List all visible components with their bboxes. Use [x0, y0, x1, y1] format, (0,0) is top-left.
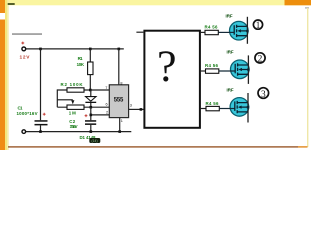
- node junction C1/top rail: [39, 48, 42, 51]
- svg-text:2: 2: [106, 111, 108, 115]
- wire R2 horizontal / pin7 line: [57, 89, 109, 91]
- terminal circle 2: [255, 53, 265, 63]
- wire R4 to gate (2): [219, 70, 235, 72]
- svg-text:1*16V: 1*16V: [70, 124, 78, 129]
- node mosfet tap dot (2): [247, 68, 249, 70]
- plus mark 12V: [21, 42, 24, 45]
- svg-text:R4 56: R4 56: [206, 101, 220, 106]
- wire pot loop left vertical: [56, 89, 58, 107]
- diode D1 anode lead: [90, 90, 92, 96]
- mosfet arrow (3): [238, 106, 242, 109]
- wire pot wiper line: [57, 99, 73, 101]
- node pin3 end dot: [140, 108, 143, 111]
- grey line top left: [12, 33, 42, 34]
- wire C2 top lead: [90, 107, 92, 120]
- node junction R1/R2/D1: [89, 89, 92, 92]
- terminal 0V: [22, 130, 26, 134]
- svg-text:10K: 10K: [77, 62, 85, 67]
- page background: [0, 0, 311, 150]
- wire 555 pin1 drop: [119, 118, 121, 132]
- wire pin2 line: [91, 114, 110, 116]
- left pale yellow strip: [5, 0, 7, 150]
- dark tag over D1 label: [89, 138, 100, 143]
- wire pin6 line: [57, 106, 109, 108]
- svg-text:IRF: IRF: [227, 88, 234, 93]
- node junction D1/pot/pin6: [90, 106, 93, 109]
- node junction R1/top rail: [89, 48, 92, 51]
- resistor R4 (3): [206, 106, 219, 110]
- svg-text:R4 56: R4 56: [205, 24, 219, 29]
- wire 555 pin8 drop: [118, 49, 120, 85]
- node junction C2/ground: [90, 130, 93, 133]
- capacitor C2: [85, 120, 96, 122]
- transistor Q2 mosfet circle: [231, 60, 250, 79]
- top right orange block: [285, 0, 312, 5]
- mosfet arrow (1): [237, 29, 241, 32]
- plus mark C2: [85, 114, 88, 117]
- terminal 12V: [22, 47, 26, 51]
- bottom brown border line: [8, 146, 298, 147]
- svg-text:2: 2: [258, 55, 263, 65]
- wire top +12V rail: [26, 48, 124, 50]
- grey dash top right: [305, 7, 309, 8]
- wire R1 bottom lead: [89, 75, 91, 90]
- wire C1 top lead: [40, 49, 42, 120]
- resistor R1: [88, 62, 93, 75]
- node mosfet tap dot (1): [246, 30, 248, 32]
- svg-text:R4 56: R4 56: [205, 63, 219, 68]
- svg-text:7: 7: [105, 86, 107, 90]
- svg-text:12V: 12V: [20, 55, 31, 61]
- mosfet internals (2): [235, 63, 248, 75]
- mosfet arrow (2): [238, 68, 242, 71]
- wire drain-source vertical (2): [247, 55, 249, 84]
- wire ground rail: [26, 131, 132, 133]
- right pale yellow border line: [307, 8, 308, 147]
- plus mark C1: [43, 113, 46, 116]
- svg-text:8: 8: [120, 81, 122, 85]
- svg-text:3: 3: [261, 90, 266, 100]
- resistor R4 (2): [206, 69, 219, 73]
- node junction C1/ground: [39, 130, 42, 133]
- diode D1 cathode bar: [85, 102, 96, 103]
- wire 555 pin3 output: [129, 108, 144, 110]
- top pale yellow band: [0, 0, 311, 5]
- svg-text:1: 1: [256, 20, 261, 30]
- svg-text:IRF: IRF: [227, 50, 234, 55]
- svg-text:R2 100K: R2 100K: [61, 82, 84, 87]
- wire box to R4 (3): [201, 108, 206, 110]
- wire box to R4 (1): [201, 31, 205, 33]
- svg-text:555: 555: [114, 98, 124, 104]
- wire drain-source vertical (1): [246, 17, 248, 44]
- svg-text:?: ?: [157, 42, 177, 91]
- diode D1 cathode lead: [90, 103, 92, 107]
- mosfet internals (3): [235, 101, 248, 113]
- svg-text:3: 3: [130, 104, 132, 108]
- svg-text:6: 6: [106, 102, 108, 106]
- wire box to R4 (2): [201, 70, 206, 72]
- wire C1 bottom lead: [40, 125, 42, 131]
- pot wiper arrow: [71, 100, 74, 104]
- wire box stub top left: [136, 31, 143, 33]
- svg-text:C1: C1: [18, 105, 24, 110]
- svg-text:(14): (14): [92, 139, 98, 143]
- node mosfet tap dot (3): [247, 106, 249, 108]
- dark olive dash top left: [8, 3, 15, 5]
- wire R4 to gate (1): [218, 31, 234, 33]
- node junction C2/pin2: [90, 114, 93, 117]
- left orange bar upper segment: [0, 0, 5, 13]
- wire drain-source vertical (3): [247, 93, 249, 123]
- terminal circle 1: [253, 20, 262, 29]
- bottom orange border segment: [298, 146, 308, 147]
- transistor Q1 mosfet circle: [230, 21, 249, 40]
- op-amp U1 555 timer body: [109, 85, 128, 118]
- node junction pin1/ground: [118, 130, 121, 133]
- wire R4 to gate (3): [219, 108, 234, 110]
- svg-text:R1: R1: [78, 56, 84, 61]
- mosfet internals (1): [234, 25, 247, 37]
- capacitor C1: [35, 120, 48, 122]
- transistor Q3 mosfet circle: [230, 98, 249, 117]
- svg-text:1: 1: [121, 119, 123, 123]
- resistor R2: [67, 88, 84, 92]
- potentiometer RV 1M body: [67, 105, 84, 109]
- node junction 555 pin8/top rail: [118, 48, 121, 51]
- svg-text:IRF: IRF: [226, 14, 233, 19]
- wire C2 bottom lead: [90, 125, 92, 132]
- left orange bar lower segment: [0, 20, 5, 151]
- diode D1 triangle: [86, 97, 96, 102]
- svg-text:1M: 1M: [69, 111, 76, 116]
- wire R1 top lead: [89, 49, 91, 62]
- svg-text:1000*16V: 1000*16V: [17, 111, 38, 116]
- terminal circle 3: [258, 88, 269, 99]
- mystery box ?: [144, 31, 200, 128]
- resistor R4 (1): [205, 30, 218, 34]
